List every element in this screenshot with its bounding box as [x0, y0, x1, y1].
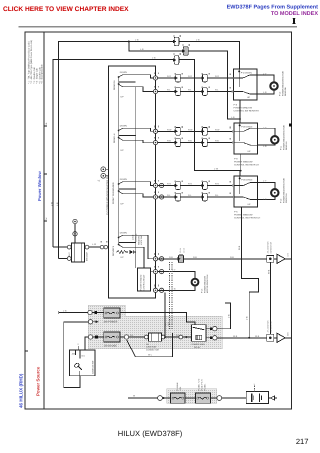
svg-text:BREAKER: BREAKER [86, 251, 89, 261]
connector on wire B (shaded) [182, 47, 188, 55]
svg-text:DOWN: DOWN [120, 124, 127, 127]
svg-text:CONTROL SW REAR LH: CONTROL SW REAR LH [234, 163, 259, 166]
svg-text:R-B: R-B [193, 256, 197, 259]
svg-text:L-B: L-B [172, 287, 176, 290]
column divider [43, 32, 45, 409]
wire-to-wire connectors [176, 74, 207, 201]
svg-text:CONNECTOR: CONNECTOR [270, 320, 273, 332]
junction connector J/7 [267, 334, 274, 341]
svg-text:FRONT PASSENGER: FRONT PASSENGER [112, 182, 115, 204]
svg-text:R-B: R-B [169, 256, 173, 259]
svg-text:L-B: L-B [56, 202, 59, 206]
svg-text:L-Y: L-Y [172, 269, 176, 272]
30A POWER fuse row [59, 312, 104, 314]
svg-text:UP: UP [121, 96, 125, 99]
svg-text:Power Source: Power Source [36, 366, 41, 396]
fuse 30A POWER [104, 308, 120, 318]
resistor in master sw [117, 250, 128, 253]
left column notes [28, 40, 44, 84]
diode in master sw [130, 250, 134, 254]
svg-text:LOCK SW: LOCK SW [140, 236, 143, 245]
svg-text:FL MAIN: FL MAIN [176, 382, 179, 390]
junction dot wire A/B [128, 41, 130, 43]
svg-text:1J 2: 1J 2 [164, 323, 167, 326]
svg-text:POWER WINDOW: POWER WINDOW [234, 213, 253, 216]
wire C: left riser to front control switch [53, 59, 240, 247]
wire B: branch to rear LH switch [129, 42, 240, 124]
P-6 power window control sw front LH [232, 176, 257, 207]
svg-text:UP: UP [121, 256, 125, 259]
svg-text:R-G: R-G [188, 75, 192, 78]
svg-text:J/5 JUNCTION: J/5 JUNCTION [267, 241, 270, 254]
breaker wiring [53, 247, 85, 258]
svg-text:FL AM1 *1,*2: FL AM1 *1,*2 [198, 378, 201, 391]
ground row to J/7 [217, 337, 267, 339]
pivot rail [118, 77, 120, 245]
wire A: fuse feed up left side to rear RH switch [58, 42, 239, 259]
illumination lamps at master sw [101, 167, 106, 178]
svg-text:* 2 : Alte TBA Type (With Powe: * 2 : Alte TBA Type (With Power Door Loc… [30, 40, 33, 84]
svg-text:POWER WINDOW: POWER WINDOW [234, 160, 253, 163]
AM1 feed circle [88, 320, 92, 324]
svg-text:DOWN: DOWN [120, 71, 127, 74]
fusible link FL MAIN [171, 393, 186, 403]
master sw cluster driver [119, 235, 156, 271]
svg-text:30A POWER: 30A POWER [104, 320, 118, 323]
svg-text:* 4 : Single Cab: * 4 : Single Cab [36, 67, 39, 84]
fuse 15A GAUGE [104, 332, 120, 342]
window lock sw labels [132, 233, 143, 245]
svg-text:R-G: R-G [215, 75, 219, 78]
junction connector J/5 [267, 255, 274, 262]
J/4 junction connector row [120, 336, 192, 338]
driver motor wiring [158, 272, 195, 291]
header gray rule [19, 26, 298, 28]
svg-text:R-G: R-G [167, 183, 171, 186]
svg-text:R-B: R-B [188, 140, 192, 143]
P-8 power window control sw rear RH [232, 69, 257, 100]
junction block stipple area [88, 305, 222, 349]
wire labels [167, 75, 220, 197]
svg-text:CONNECTOR: CONNECTOR [270, 241, 273, 253]
svg-text:1O 13: 1O 13 [182, 248, 185, 253]
svg-text:JUNCTION: JUNCTION [146, 346, 157, 349]
power main relay [192, 325, 207, 342]
ignition switch [70, 350, 96, 376]
svg-text:15A GAUGE: 15A GAUGE [104, 344, 118, 347]
R-B ground wire from master sw [158, 258, 179, 260]
svg-text:W-B: W-B [255, 335, 260, 338]
svg-text:REAR RH: REAR RH [284, 86, 287, 96]
motor rear LH [258, 128, 275, 145]
svg-text:L-B: L-B [140, 48, 144, 51]
master sw right edge pin pairs [153, 76, 163, 293]
svg-text:POWER WINDOW: POWER WINDOW [234, 106, 253, 109]
svg-text:W-B: W-B [267, 269, 270, 274]
motor rear RH [257, 75, 274, 94]
svg-text:NORMAL: NORMAL [135, 233, 138, 242]
svg-text:POWER WINDOW: POWER WINDOW [140, 274, 143, 290]
svg-text:R-B: R-B [215, 140, 219, 143]
svg-text:L-B: L-B [196, 39, 200, 42]
svg-text:J/7 JUNCTION: J/7 JUNCTION [267, 320, 270, 333]
svg-text:R-G: R-G [188, 183, 192, 186]
relay output pins [213, 327, 217, 331]
svg-text:46 HILUX (RHD): 46 HILUX (RHD) [19, 373, 24, 408]
svg-text:* 1 : TBL Type (Without Power: * 1 : TBL Type (Without Power Door Lock) [28, 41, 31, 84]
svg-text:CLICK HERE TO VIEW CHAPTER IND: CLICK HERE TO VIEW CHAPTER INDEX [3, 6, 129, 13]
svg-text:MOTOR FRONT RH: MOTOR FRONT RH [206, 274, 209, 293]
page link triangle B [274, 337, 277, 339]
wire labels top [135, 39, 235, 171]
master sw cluster rear RH [119, 75, 156, 92]
svg-text:CONTROL RELAY: CONTROL RELAY [143, 274, 146, 290]
power window control relay sub-box [138, 268, 151, 291]
svg-text:L-B: L-B [263, 145, 267, 148]
relay to L-B riser [217, 303, 230, 329]
svg-text:L-B: L-B [135, 39, 139, 42]
svg-text:R-B: R-B [230, 256, 234, 259]
svg-text:FRONT LH: FRONT LH [285, 192, 288, 203]
svg-text:UP: UP [121, 149, 125, 152]
svg-text:L-Y: L-Y [263, 73, 267, 76]
wires master sw to door switches [158, 78, 234, 197]
svg-text:REAR LH: REAR LH [113, 133, 116, 143]
svg-text:L-B: L-B [246, 316, 249, 320]
svg-text:R-G: R-G [215, 183, 219, 186]
master sw cluster front passenger [119, 182, 156, 197]
master sw cluster rear LH [119, 128, 156, 142]
dotted wires from master sw to J/B [170, 262, 173, 330]
svg-text:1M 6: 1M 6 [167, 322, 170, 326]
header I mark [292, 18, 295, 24]
svg-text:EWD378F Pages From Supplement: EWD378F Pages From Supplement [227, 4, 319, 10]
right frame black tick [289, 124, 292, 127]
fusible link FL AM1 [195, 393, 210, 403]
svg-text:* 3 : Double Cab: * 3 : Double Cab [33, 66, 36, 84]
switch ground chain [240, 100, 259, 338]
svg-text:Power Window: Power Window [37, 171, 42, 201]
svg-text:P-7 POWER WINDOW MASTER SW: P-7 POWER WINDOW MASTER SW [106, 175, 109, 215]
svg-text:L-B: L-B [231, 116, 235, 119]
svg-text:R-B: R-B [167, 140, 171, 143]
svg-text:R-G: R-G [167, 75, 171, 78]
circuit breaker [72, 243, 85, 262]
svg-text:HILUX (EWD378F): HILUX (EWD378F) [118, 429, 183, 438]
svg-text:DOWN: DOWN [120, 178, 127, 181]
svg-text:CONNECTOR: CONNECTOR [146, 348, 159, 351]
svg-text:RELAY: RELAY [194, 346, 201, 349]
svg-text:FL AM1: FL AM1 [204, 383, 207, 391]
svg-text:217: 217 [296, 437, 309, 446]
svg-text:L-B: L-B [263, 91, 267, 94]
svg-text:P W DOWN: P W DOWN [241, 71, 253, 74]
svg-text:UP: UP [121, 203, 125, 206]
battery supply rail [128, 397, 246, 399]
svg-text:CONTROL SW REAR RH: CONTROL SW REAR RH [234, 109, 260, 112]
svg-text:W-B: W-B [238, 245, 241, 250]
svg-text:L-B: L-B [63, 309, 67, 312]
15A GAUGE fuse row [85, 337, 104, 350]
svg-text:DRIVER'S: DRIVER'S [112, 245, 115, 256]
master sw ground drop [164, 292, 166, 337]
svg-text:L-B: L-B [227, 314, 230, 318]
svg-text:L-Y: L-Y [263, 180, 267, 183]
svg-text:FL ALT *3,*4: FL ALT *3,*4 [201, 379, 204, 391]
ignition sw loop [64, 322, 89, 388]
svg-text:CONTROL SW FRONT LH: CONTROL SW FRONT LH [234, 216, 261, 219]
svg-text:REAR LH: REAR LH [285, 141, 288, 150]
grid tick marks [25, 126, 47, 351]
svg-text:1O 14: 1O 14 [179, 248, 182, 253]
breaker top connector stack [73, 219, 77, 236]
battery [246, 392, 268, 404]
svg-text:LOCK: LOCK [132, 234, 135, 240]
svg-text:TO MODEL INDEX: TO MODEL INDEX [271, 11, 318, 17]
svg-text:IGNITION SW: IGNITION SW [92, 361, 95, 374]
riser labels L-B / L-W [51, 201, 59, 206]
page frame [25, 32, 292, 409]
P-9 power window control sw rear LH [232, 123, 257, 154]
svg-text:W-B: W-B [233, 335, 238, 338]
W-B ground drop from J/5 [269, 262, 271, 334]
svg-text:* 6 : Except Double: * 6 : Except Double [41, 64, 44, 84]
svg-text:L-B: L-B [152, 56, 156, 59]
svg-text:REAR RH: REAR RH [113, 80, 116, 90]
svg-text:POWER MAIN: POWER MAIN [192, 343, 206, 346]
motor front LH [258, 182, 275, 199]
feed to power main relay [120, 313, 195, 325]
bottom fuses stipple [167, 389, 217, 404]
battery output arrow [269, 396, 275, 400]
connector on wire A [173, 37, 179, 45]
inner rail [135, 86, 137, 268]
svg-text:DOWN: DOWN [120, 231, 127, 234]
svg-text:L-B: L-B [263, 198, 267, 201]
svg-text:P W DOWN: P W DOWN [241, 178, 253, 181]
MAIN-DIAGRAM [53, 42, 240, 259]
page link triangle A [274, 258, 277, 260]
P-7 power window master switch box [109, 66, 156, 298]
pin number marks [101, 35, 231, 286]
svg-text:L-Y: L-Y [263, 127, 267, 130]
L-W feed into master sw [89, 246, 109, 248]
connector on wire C [173, 56, 179, 64]
motor driver's door [192, 279, 199, 286]
